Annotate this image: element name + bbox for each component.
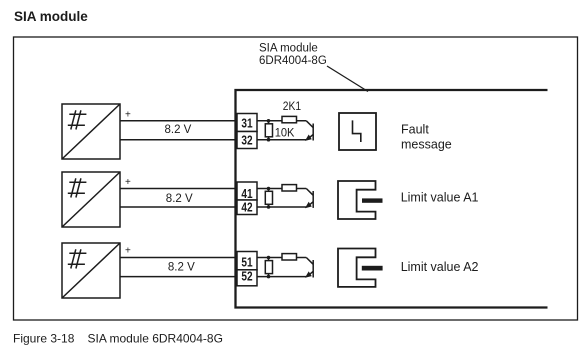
- svg-text:SIA module: SIA module: [14, 9, 88, 24]
- svg-text:52: 52: [241, 270, 252, 284]
- svg-text:message: message: [401, 137, 452, 151]
- svg-text:Figure 3-18: Figure 3-18: [13, 332, 75, 346]
- svg-text:32: 32: [241, 134, 252, 148]
- svg-text:42: 42: [241, 200, 252, 214]
- svg-text:51: 51: [241, 255, 252, 269]
- svg-text:10K: 10K: [275, 127, 295, 139]
- svg-text:8.2 V: 8.2 V: [166, 193, 193, 205]
- svg-text:Limit value A2: Limit value A2: [401, 260, 479, 274]
- svg-text:Limit value A1: Limit value A1: [401, 191, 479, 205]
- svg-text:8.2 V: 8.2 V: [165, 124, 192, 136]
- svg-text:+: +: [125, 245, 131, 256]
- svg-text:+: +: [125, 177, 131, 188]
- svg-text:6DR4004-8G: 6DR4004-8G: [259, 55, 327, 67]
- svg-text:2K1: 2K1: [283, 101, 301, 113]
- svg-text:Fault: Fault: [401, 123, 429, 137]
- svg-text:SIA module: SIA module: [259, 43, 318, 55]
- svg-text:+: +: [125, 109, 131, 120]
- svg-text:31: 31: [241, 117, 252, 131]
- svg-text:8.2 V: 8.2 V: [168, 262, 195, 274]
- svg-text:41: 41: [241, 187, 252, 201]
- svg-text:SIA module 6DR4004-8G: SIA module 6DR4004-8G: [88, 332, 223, 346]
